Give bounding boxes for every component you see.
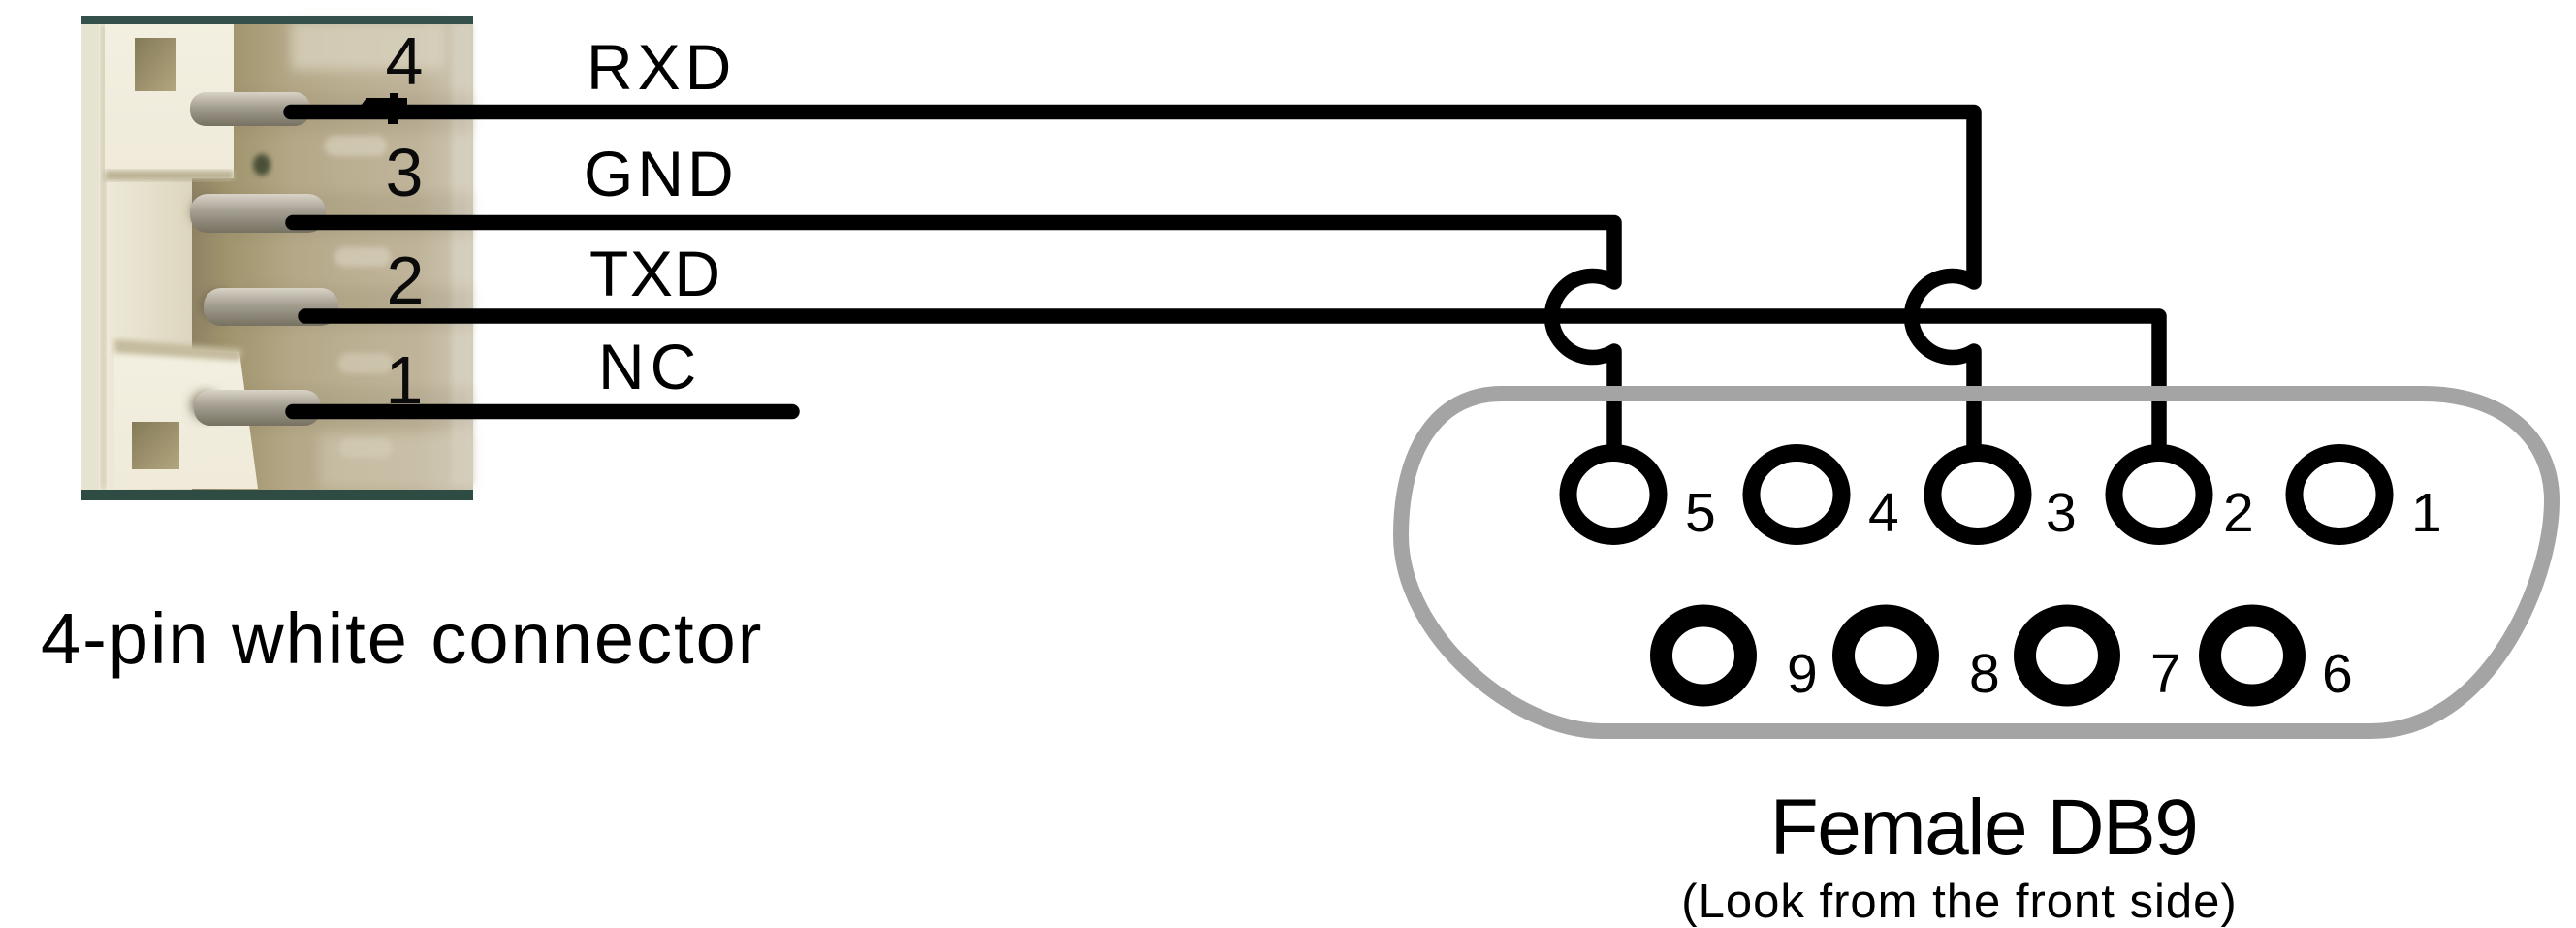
svg-text:RXD: RXD (587, 31, 736, 103)
svg-text:4-pin white connector: 4-pin white connector (41, 598, 763, 679)
svg-text:Female DB9: Female DB9 (1770, 784, 2198, 872)
DB9 pin 3 (1933, 453, 2023, 536)
svg-text:4: 4 (1868, 482, 1899, 544)
wire RXD (pin4 to DB9 pin3) (291, 112, 1974, 455)
DB9 pin 4 (1752, 453, 1842, 536)
svg-text:GND: GND (584, 138, 738, 209)
pin 1 metal contact (192, 390, 393, 458)
svg-text:6: 6 (2322, 643, 2353, 705)
svg-text:2: 2 (2223, 482, 2254, 544)
svg-text:4: 4 (386, 23, 424, 99)
DB9 pin 6 (2210, 616, 2295, 695)
DB9 pin 7 (2025, 616, 2110, 695)
connector J1 shroud wall (99, 16, 192, 500)
svg-text:1: 1 (2411, 482, 2442, 544)
connector J1 upper latch hole (135, 38, 176, 91)
pin 2 metal contact (203, 288, 393, 373)
svg-text:9: 9 (1787, 643, 1818, 705)
connector J1 lower latch tab (114, 339, 258, 489)
wire GND (pin3 to DB9 pin5) (293, 223, 1614, 455)
connector J1 photo background (81, 16, 473, 500)
svg-text:TXD: TXD (589, 238, 722, 309)
DB9 shell outline (1401, 394, 2552, 731)
pin 3 metal contact (190, 194, 391, 267)
PCB edge strip bottom (81, 490, 473, 500)
DB9 pin 9 (1662, 616, 1746, 695)
DB9 pin 8 (1844, 616, 1928, 695)
arrowhead on wire RXD (355, 93, 407, 124)
svg-text:(Look from the front side): (Look from the front side) (1681, 876, 2237, 928)
svg-text:3: 3 (2046, 482, 2077, 544)
DB9 pin 5 (1569, 453, 1659, 536)
pin 4 metal contact (190, 92, 387, 176)
wire TXD (pin2 to DB9 pin2) (305, 316, 2159, 448)
svg-text:5: 5 (1685, 482, 1716, 544)
svg-text:8: 8 (1969, 643, 2000, 705)
DB9 pin 2 (2115, 453, 2205, 536)
svg-text:3: 3 (386, 135, 424, 210)
DB9 pin 1 (2295, 453, 2385, 536)
svg-text:NC: NC (598, 331, 702, 402)
connector J1 upper latch tab (105, 16, 234, 180)
connector J1 lower latch hole (132, 422, 179, 469)
wire NC stub (pin1) (293, 404, 792, 420)
PCB edge strip top (81, 16, 473, 24)
svg-text:7: 7 (2150, 643, 2181, 705)
svg-text:2: 2 (387, 242, 425, 318)
